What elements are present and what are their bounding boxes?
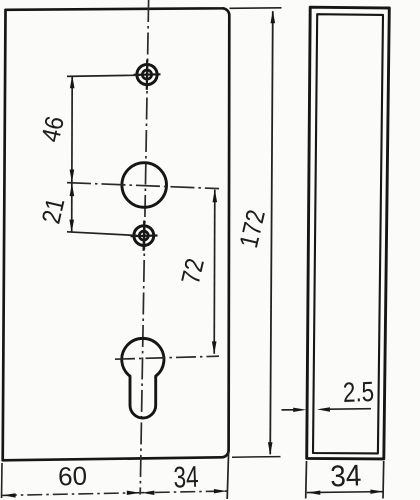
- svg-text:2.5: 2.5: [342, 377, 374, 409]
- svg-text:72: 72: [177, 256, 211, 287]
- svg-text:172: 172: [235, 207, 272, 251]
- svg-text:34: 34: [173, 460, 199, 495]
- svg-text:34: 34: [330, 459, 362, 493]
- svg-text:60: 60: [58, 461, 88, 492]
- svg-text:46: 46: [37, 114, 71, 145]
- svg-text:21: 21: [37, 195, 71, 226]
